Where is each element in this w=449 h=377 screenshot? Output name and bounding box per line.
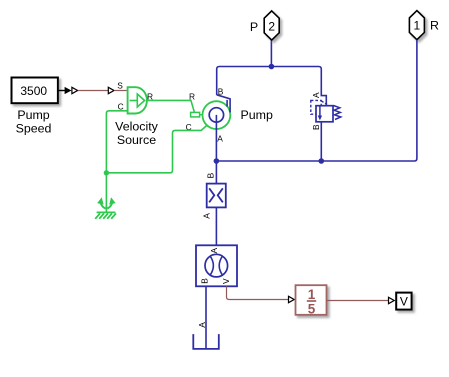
svg-text:Pump: Pump	[17, 108, 49, 122]
PS converter arrow (hollow)	[72, 87, 78, 93]
svg-text:5: 5	[308, 301, 316, 316]
svg-text:P: P	[250, 20, 258, 34]
svg-text:Speed: Speed	[16, 121, 52, 135]
stub coupling to pump	[200, 114, 203, 116]
valve arrow	[319, 107, 321, 117]
svg-text:V: V	[221, 278, 231, 284]
label Velocity Source	[115, 120, 159, 147]
wire C: velocity source C to ground node	[106, 111, 127, 208]
physical signal wire: sensor V to gain	[227, 286, 289, 299]
wire: return line from port R down and along bottom bus	[216, 40, 417, 161]
wire: top pressure bus (pump B to relief valve A)	[217, 67, 327, 106]
svg-text:Velocity: Velocity	[115, 120, 159, 134]
relief valve U3	[311, 92, 341, 130]
svg-text:Source: Source	[117, 133, 156, 147]
wire: gain to display V	[327, 300, 389, 302]
wire: orifice A to sensor	[215, 207, 217, 245]
wire: port P branch	[270, 40, 272, 66]
flow rate sensor U5	[196, 245, 237, 286]
physical signal wire to S port	[78, 90, 108, 92]
arrow into gain (hollow)	[289, 296, 295, 302]
pilot dashed box	[311, 100, 321, 114]
svg-text:A: A	[197, 322, 207, 328]
svg-text:A: A	[311, 92, 321, 98]
wire: relief valve B to bottom bus	[320, 122, 322, 161]
svg-text:1: 1	[308, 287, 316, 302]
pump B connection (diagonal and tab)	[217, 95, 230, 113]
tank (hydraulic reservoir)	[193, 334, 219, 349]
valve body square	[316, 106, 333, 122]
svg-text:A: A	[209, 247, 219, 253]
svg-text:A: A	[201, 213, 211, 219]
wire R: velocity source to pump coupling	[147, 100, 194, 112]
display block V	[396, 293, 411, 310]
node: junction bottom bus at pump A	[214, 158, 220, 164]
pump U2 (fixed-displacement pump)	[203, 101, 231, 129]
svg-text:B: B	[206, 172, 216, 178]
shaft coupling rect	[191, 112, 200, 117]
wire C: node to pump C	[106, 125, 207, 173]
velocity source U1 (Ideal Angular Velocity Source)	[128, 87, 147, 113]
label Pump Speed	[16, 108, 52, 135]
wire: constant output signal	[58, 87, 72, 94]
gain block U6 "1/5"	[296, 285, 327, 316]
arrow into V display (hollow)	[389, 297, 395, 303]
wire: pump shaft / A line down to orifice	[215, 115, 217, 184]
svg-text:A: A	[217, 134, 223, 144]
physical signal wire stub into S	[114, 90, 127, 92]
port R (1)	[409, 11, 424, 40]
arrow at S port (hollow)	[108, 87, 114, 93]
ground (mechanical rotational reference)	[95, 198, 116, 219]
svg-text:B: B	[218, 86, 224, 96]
spring	[334, 106, 341, 120]
svg-text:B: B	[311, 124, 321, 130]
svg-text:2: 2	[268, 20, 275, 34]
node: junction bottom bus at valve B	[319, 158, 325, 164]
wire: sensor B to tank	[205, 286, 207, 348]
orifice U4 (fixed orifice)	[207, 184, 226, 208]
svg-text:V: V	[400, 295, 408, 309]
svg-text:Pump: Pump	[241, 108, 273, 122]
svg-text:R: R	[430, 19, 439, 33]
svg-text:B: B	[200, 278, 210, 284]
node: green junction	[104, 170, 109, 175]
svg-text:R: R	[189, 91, 195, 101]
node: junction on top bus	[269, 64, 275, 70]
svg-text:S: S	[117, 80, 123, 90]
port P (2)	[264, 11, 279, 40]
svg-text:3500: 3500	[20, 84, 47, 98]
svg-text:1: 1	[414, 18, 421, 32]
constant block C1 "3500" (Pump Speed)	[12, 78, 58, 104]
